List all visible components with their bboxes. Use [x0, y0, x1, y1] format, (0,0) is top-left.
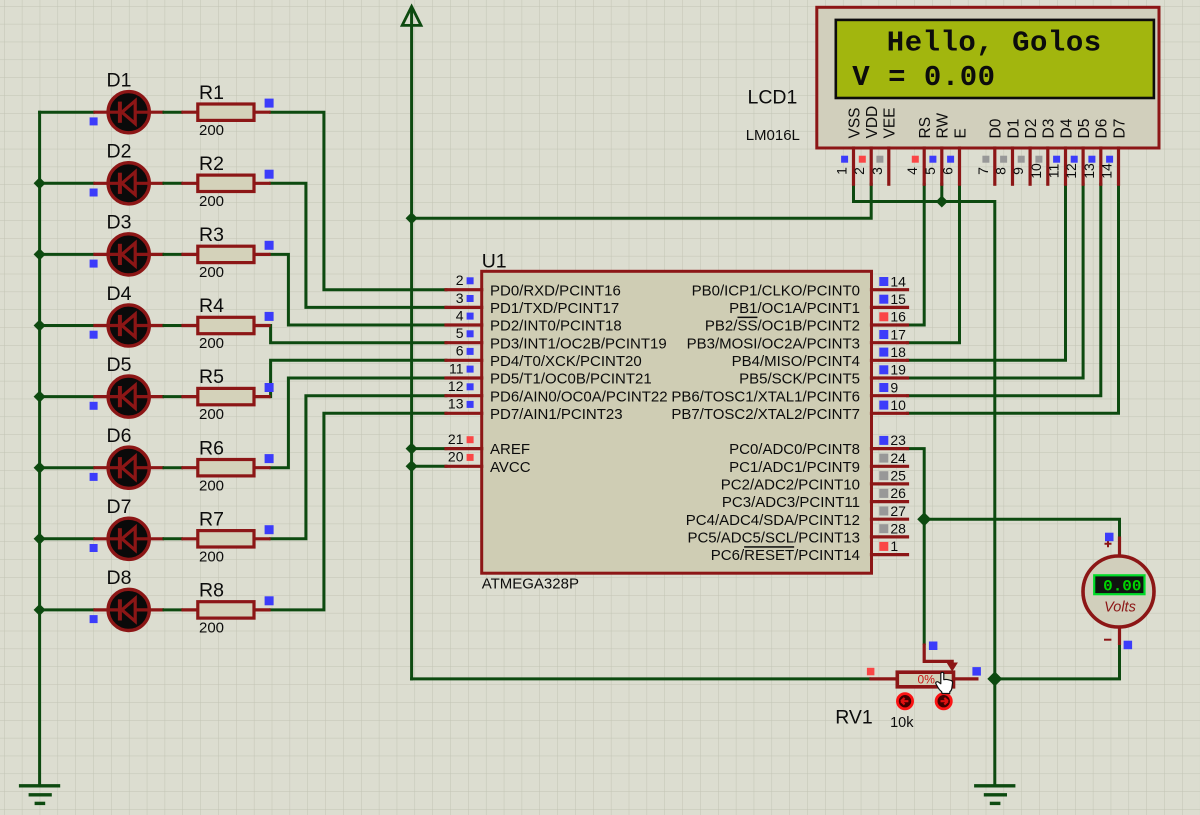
pin state indicator LCD pin 3: [876, 156, 883, 163]
pin name PB5/SCK/PCINT5: [739, 371, 860, 388]
LCD pin name D0 (rotated): [988, 118, 1005, 138]
svg-text:D5: D5: [107, 354, 132, 376]
pin number 24: [890, 450, 906, 466]
pin state indicator U1 pin 5: [467, 330, 474, 337]
wire LED D7 row: bus to LED anode: [40, 537, 94, 540]
svg-text:26: 26: [890, 485, 906, 501]
value label 10k: [890, 715, 914, 731]
label D1: [107, 70, 132, 92]
junction bus row D3: [34, 248, 46, 260]
svg-text:200: 200: [199, 406, 224, 423]
pin number 12: [448, 378, 464, 394]
voltmeter - label: [1104, 639, 1111, 641]
svg-text:R2: R2: [199, 153, 224, 175]
U1 pin 28 (PC5/ADC5/SCL/PCINT13) stub: [872, 535, 908, 538]
svg-text:19: 19: [890, 362, 906, 378]
label R2: [199, 153, 224, 175]
pin name PB7/TOSC2/XTAL2/PCINT7: [671, 406, 860, 423]
svg-text:0%: 0%: [918, 672, 936, 686]
wire LED D8 row: bus to LED anode: [40, 608, 94, 611]
pin name PD7/AIN1/PCINT23: [490, 406, 623, 423]
LCD pin number 7 (rotated): [975, 167, 991, 175]
pin number 25: [890, 468, 906, 484]
value label 200: [199, 122, 224, 139]
pin state indicator LCD pin 5: [929, 156, 936, 163]
svg-text:AREF: AREF: [490, 441, 530, 458]
pin state indicator U1 pin 15: [879, 295, 888, 304]
pin name PD0/RXD/PCINT16: [490, 282, 621, 299]
pin state indicator LCD pin 10: [1035, 156, 1042, 163]
pin number 15: [890, 291, 906, 307]
pin state indicator R1 output: [265, 99, 274, 108]
wire LED D3 cathode to R3: [164, 253, 181, 256]
pin number 28: [890, 521, 906, 537]
wire LCD E(6) to U1 pin17: [908, 184, 960, 343]
label U1: [482, 251, 507, 273]
svg-text:10: 10: [1028, 163, 1044, 179]
LCD pin number 9 (rotated): [1010, 167, 1026, 175]
LCD pin number 6 (rotated): [940, 167, 956, 175]
pin state indicator R2 output: [265, 170, 274, 179]
pin state indicator LED D5 anode: [90, 402, 98, 410]
label ATMEGA328P: [482, 576, 579, 593]
power terminal arrow: [402, 7, 421, 26]
pin state indicator R6 output: [265, 454, 274, 463]
svg-text:12: 12: [448, 378, 464, 394]
LCD pin name E (rotated): [952, 128, 969, 138]
pin state indicator U1 pin 10: [879, 401, 888, 410]
junction bus row D2: [34, 177, 46, 189]
wire LED D5 cathode to R5: [164, 395, 181, 398]
pin state indicator LED D2 anode: [90, 189, 98, 197]
svg-text:13: 13: [1081, 163, 1097, 179]
svg-text:6: 6: [456, 343, 464, 359]
LED D5: [93, 376, 164, 417]
U1 pin 17 (PB3/MOSI/OC2A/PCINT3) stub: [872, 341, 908, 344]
voltmeter + label: [1105, 540, 1112, 547]
svg-text:PB5/SCK/PCINT5: PB5/SCK/PCINT5: [739, 371, 860, 388]
LCD pin number 12 (rotated): [1063, 163, 1079, 179]
wire LED D1 row: bus to LED anode: [40, 111, 94, 114]
resistor R4 200: [181, 317, 270, 333]
pin name AVCC: [490, 459, 531, 476]
U1 ATMEGA328P body: [482, 271, 872, 573]
pin state indicator LCD pin 12: [1071, 156, 1078, 163]
svg-text:VSS: VSS: [846, 107, 863, 138]
wire LED D1 cathode to R1: [164, 111, 181, 114]
label R3: [199, 224, 224, 246]
LCD pin name D7 (rotated): [1111, 119, 1128, 139]
pin state indicator U1 pin 27: [879, 507, 888, 516]
svg-text:PD1/TXD/PCINT17: PD1/TXD/PCINT17: [490, 300, 619, 317]
svg-text:LM016L: LM016L: [746, 127, 800, 144]
wire LED D7 cathode to R7: [164, 537, 181, 540]
pin name PC3/ADC3/PCINT11: [722, 494, 860, 511]
pin state indicator LCD pin 9: [1018, 156, 1025, 163]
svg-text:R6: R6: [199, 437, 224, 459]
pin state indicator voltmeter +: [1105, 533, 1114, 542]
U1 pin 19 (PB5/SCK/PCINT5) stub: [872, 376, 908, 379]
LCD pin name RS (rotated): [917, 117, 934, 139]
wire power rail horizontal to RV1 left pin: [412, 677, 870, 680]
wire R4 to U1 pin 5: [271, 326, 446, 343]
svg-text:D8: D8: [107, 567, 132, 589]
svg-text:R1: R1: [199, 82, 224, 104]
pin name PD3/INT1/OC2B/PCINT19: [490, 335, 667, 352]
pin name PC4/ADC4/SDA/PCINT12: [686, 512, 860, 529]
svg-text:0.00: 0.00: [1103, 578, 1141, 596]
pin state indicator LCD pin 11: [1053, 156, 1060, 163]
svg-text:D0: D0: [988, 118, 1005, 138]
svg-text:PD3/INT1/OC2B/PCINT19: PD3/INT1/OC2B/PCINT19: [490, 335, 667, 352]
svg-text:14: 14: [1099, 163, 1115, 179]
U1 pin 18 (PB4/MISO/PCINT4) stub: [872, 359, 908, 362]
svg-text:200: 200: [199, 335, 224, 352]
wire LED D6 cathode to R6: [164, 466, 181, 469]
pin number 9: [890, 379, 898, 395]
resistor R6 200: [181, 460, 270, 476]
pin state indicator R4 output: [265, 312, 274, 321]
wire VDD feed: rail to LCD pin 2: [412, 184, 872, 218]
svg-text:RV1: RV1: [835, 707, 873, 729]
svg-text:2: 2: [456, 272, 464, 288]
svg-text:PB3/MOSI/OC2A/PCINT3: PB3/MOSI/OC2A/PCINT3: [687, 335, 860, 352]
pin number 23: [890, 432, 906, 448]
LCD pin 7 (D0) stub: [993, 148, 996, 184]
label D7: [107, 496, 132, 518]
label RV1: [835, 707, 873, 729]
wire R1 to U1 pin 2: [271, 112, 446, 290]
LCD pin name D1 (rotated): [1005, 119, 1022, 139]
pin name PC0/ADC0/PCINT8: [729, 441, 860, 458]
pin state indicator U1 pin 20: [467, 454, 474, 461]
pin number 19: [890, 362, 906, 378]
pin state indicator RV1 right: [972, 667, 981, 676]
pin number 26: [890, 485, 906, 501]
label R7: [199, 508, 224, 530]
U1 pin 13 (PD7/AIN1/PCINT23) stub: [446, 412, 482, 415]
svg-text:20: 20: [448, 449, 464, 465]
pin name PD1/TXD/PCINT17: [490, 300, 619, 317]
pin number 18: [890, 344, 906, 360]
svg-text:200: 200: [199, 548, 224, 565]
svg-text:24: 24: [890, 450, 906, 466]
svg-text:Volts: Volts: [1104, 600, 1136, 616]
svg-text:21: 21: [448, 431, 464, 447]
svg-text:V = 0.00: V = 0.00: [852, 61, 995, 94]
pin name PC1/ADC1/PCINT9: [729, 459, 860, 476]
pin number 20: [448, 449, 464, 465]
pin state indicator U1 pin 2: [467, 277, 474, 284]
value label 200: [199, 335, 224, 352]
svg-text:27: 27: [890, 503, 906, 519]
label D4: [107, 283, 132, 305]
svg-text:PB6/TOSC1/XTAL1/PCINT6: PB6/TOSC1/XTAL1/PCINT6: [671, 388, 860, 405]
svg-text:10k: 10k: [890, 715, 914, 731]
svg-text:3: 3: [869, 167, 885, 175]
svg-text:PD0/RXD/PCINT16: PD0/RXD/PCINT16: [490, 282, 621, 299]
LCD pin 5 (RW) stub: [940, 148, 943, 184]
svg-text:23: 23: [890, 432, 906, 448]
pin state indicator RV1 left: [867, 668, 875, 676]
LCD pin 10 (D3) stub: [1046, 148, 1049, 184]
svg-text:1: 1: [890, 538, 898, 554]
pin state indicator U1 pin 6: [467, 348, 474, 355]
svg-text:11: 11: [1046, 164, 1062, 179]
wire R6 to U1 pin 11: [271, 378, 446, 468]
U1 pin 1 (PC6/RESET/PCINT14) stub: [872, 553, 908, 556]
U1 pin 6 (PD4/T0/XCK/PCINT20) stub: [446, 359, 482, 362]
RV1 decrease button: [897, 694, 912, 709]
svg-text:PD5/T1/OC0B/PCINT21: PD5/T1/OC0B/PCINT21: [490, 371, 652, 388]
pin state indicator RV1 wiper: [929, 642, 938, 651]
pin name PB3/MOSI/OC2A/PCINT3: [687, 335, 860, 352]
resistor R8 200: [181, 602, 270, 618]
pin state indicator LED D6 anode: [90, 473, 98, 481]
junction RV1 right / ground rail / voltmeter: [987, 671, 1002, 686]
U1 pin 20 (AVCC) stub: [446, 465, 482, 468]
svg-text:15: 15: [890, 291, 906, 307]
pin state indicator R5 output: [265, 383, 274, 392]
LCD pin number 10 (rotated): [1028, 163, 1044, 179]
pin name PC5/ADC5/SCL/PCINT13: [687, 530, 860, 547]
svg-text:D2: D2: [107, 141, 132, 163]
svg-text:5: 5: [922, 167, 938, 175]
pin name PB4/MISO/PCINT4: [732, 353, 860, 370]
junction bus row D7: [34, 533, 46, 545]
wire LCD D7(14) to U1 pin10: [908, 184, 1119, 413]
LCD text line 1: Hello, Golos: [887, 27, 1102, 60]
svg-text:16: 16: [890, 309, 906, 325]
pin number 2: [456, 272, 464, 288]
svg-text:D3: D3: [1041, 119, 1058, 139]
LCD pin number 5 (rotated): [922, 167, 938, 175]
svg-text:PC0/ADC0/PCINT8: PC0/ADC0/PCINT8: [729, 441, 860, 458]
svg-text:2: 2: [851, 167, 867, 175]
pin number 3: [456, 290, 464, 306]
wire R5 to U1 pin 6: [271, 360, 446, 396]
LCD pin name D4 (rotated): [1058, 118, 1075, 138]
pin state indicator U1 pin 1: [879, 542, 888, 551]
wire LED D5 row: bus to LED anode: [40, 395, 94, 398]
svg-text:9: 9: [890, 379, 898, 395]
pin number 11: [449, 360, 464, 376]
junction rail/AREF: [406, 443, 418, 455]
svg-text:11: 11: [449, 360, 464, 376]
svg-text:1: 1: [834, 167, 850, 175]
value label 200: [199, 548, 224, 565]
svg-text:D7: D7: [1111, 119, 1128, 139]
RV1 percent label 0%: [918, 672, 936, 686]
svg-text:D6: D6: [107, 425, 132, 447]
wire LED D4 cathode to R4: [164, 324, 181, 327]
svg-text:PD7/AIN1/PCINT23: PD7/AIN1/PCINT23: [490, 406, 623, 423]
pin name AREF: [490, 441, 530, 458]
LCD pin name VDD (rotated): [864, 106, 881, 139]
label D8: [107, 567, 132, 589]
pin name PD4/T0/XCK/PCINT20: [490, 353, 642, 370]
U1 pin 12 (PD6/AIN0/OC0A/PCINT22) stub: [446, 394, 482, 397]
LCD pin name RW (rotated): [935, 113, 952, 139]
LCD pin number 1 (rotated): [834, 167, 850, 175]
svg-text:17: 17: [890, 326, 906, 342]
pin state indicator U1 pin 13: [467, 401, 474, 408]
svg-text:ATMEGA328P: ATMEGA328P: [482, 576, 579, 593]
svg-text:PC1/ADC1/PCINT9: PC1/ADC1/PCINT9: [729, 459, 860, 476]
svg-text:AVCC: AVCC: [490, 459, 531, 476]
svg-text:PD4/T0/XCK/PCINT20: PD4/T0/XCK/PCINT20: [490, 353, 642, 370]
pin name PD6/AIN0/OC0A/PCINT22: [490, 388, 668, 405]
svg-text:200: 200: [199, 193, 224, 210]
svg-text:200: 200: [199, 477, 224, 494]
wire LED D4 row: bus to LED anode: [40, 324, 94, 327]
LCD pin 8 (D1) stub: [1011, 148, 1014, 184]
pin number 16: [890, 309, 906, 325]
pin state indicator R7 output: [265, 525, 274, 534]
svg-text:PC2/ADC2/PCINT10: PC2/ADC2/PCINT10: [721, 477, 860, 494]
pin number 6: [456, 343, 464, 359]
svg-text:5: 5: [456, 325, 464, 341]
svg-text:PB7/TOSC2/XTAL2/PCINT7: PB7/TOSC2/XTAL2/PCINT7: [671, 406, 860, 423]
pin name PB0/ICP1/CLKO/PCINT0: [692, 282, 860, 299]
pin number 17: [890, 326, 906, 342]
svg-text:VDD: VDD: [864, 106, 881, 139]
pin name PC6/RESET/PCINT14: [711, 547, 860, 564]
pin state indicator U1 pin 12: [467, 383, 474, 390]
svg-text:PD2/INT0/PCINT18: PD2/INT0/PCINT18: [490, 318, 622, 335]
value label 200: [199, 193, 224, 210]
LCD pin number 14 (rotated): [1099, 163, 1115, 179]
pin state indicator LCD pin 7: [982, 156, 989, 163]
pin state indicator U1 pin 25: [879, 471, 888, 480]
svg-text:8: 8: [993, 167, 1009, 175]
potentiometer RV1 body: [869, 672, 978, 687]
junction RW/ground wire: [936, 196, 948, 208]
value label 200: [199, 620, 224, 637]
svg-text:RS: RS: [917, 117, 934, 139]
label D5: [107, 354, 132, 376]
RV1 increase button: [936, 694, 951, 709]
wire LCD D6(13) to U1 pin9: [908, 184, 1101, 396]
U1 pin 14 (PB0/ICP1/CLKO/PCINT0) stub: [872, 288, 908, 291]
pin name PD5/T1/OC0B/PCINT21: [490, 371, 652, 388]
pin state indicator U1 pin 9: [879, 383, 888, 392]
label D2: [107, 141, 132, 163]
svg-text:3: 3: [456, 290, 464, 306]
svg-text:PC6/RESET/PCINT14: PC6/RESET/PCINT14: [711, 547, 860, 564]
wire U1 pin23 PC0/ADC0 to RV1 wiper: [908, 449, 925, 644]
pin state indicator LED D1 anode: [90, 117, 98, 125]
pin state indicator voltmeter -: [1124, 641, 1133, 650]
pin name PB1/OC1A/PCINT1: [729, 300, 860, 317]
U1 pin 11 (PD5/T1/OC0B/PCINT21) stub: [446, 376, 482, 379]
svg-text:200: 200: [199, 122, 224, 139]
wire LED D2 row: bus to LED anode: [40, 182, 94, 185]
pin state indicator U1 pin 4: [467, 313, 474, 320]
wire LCD RS(4) to U1 pin16: [908, 184, 925, 325]
LCD pin 13 (D6) stub: [1099, 148, 1102, 184]
pin state indicator U1 pin 23: [879, 436, 888, 445]
pin state indicator R8 output: [265, 596, 274, 605]
LCD pin 4 (RS) stub: [923, 148, 926, 184]
wire R3 to U1 pin 4: [271, 254, 446, 325]
wire AVCC to rail: [412, 465, 446, 468]
wire LED cathode bus: [38, 112, 41, 785]
LCD pin 14 (D7) stub: [1117, 148, 1120, 184]
wire LCD D4(11) to U1 pin18: [908, 184, 1066, 360]
wire voltmeter + to ADC wire: [924, 519, 1119, 536]
LCD text line 2: V = 0.00: [852, 61, 995, 94]
pin state indicator U1 pin 11: [467, 366, 474, 373]
U1 pin 23 (PC0/ADC0/PCINT8) stub: [872, 447, 908, 450]
U1 pin 16 (PB2/SS/OC1B/PCINT2) stub: [872, 323, 908, 326]
pin state indicator U1 pin 28: [879, 524, 888, 533]
svg-text:LCD1: LCD1: [748, 87, 798, 109]
U1 pin 4 (PD2/INT0/PCINT18) stub: [446, 323, 482, 326]
pin state indicator LCD pin 2: [859, 156, 866, 163]
wire LCD D5(12) to U1 pin19: [908, 184, 1084, 378]
svg-text:R4: R4: [199, 295, 224, 317]
svg-text:D3: D3: [107, 212, 132, 234]
value label 200: [199, 477, 224, 494]
LED D7: [93, 518, 164, 559]
resistor R1 200: [181, 104, 270, 120]
pin state indicator U1 pin 17: [879, 330, 888, 339]
pin name PB6/TOSC1/XTAL1/PCINT6: [671, 388, 860, 405]
pin number 14: [890, 273, 906, 289]
U1 pin 9 (PB6/TOSC1/XTAL1/PCINT6) stub: [872, 394, 908, 397]
junction bus row D6: [34, 462, 46, 474]
U1 pin 3 (PD1/TXD/PCINT17) stub: [446, 306, 482, 309]
resistor R3 200: [181, 246, 270, 262]
wire R2 to U1 pin 3: [271, 183, 446, 307]
resistor R5 200: [181, 388, 270, 404]
U1 pin 5 (PD3/INT1/OC2B/PCINT19) stub: [446, 341, 482, 344]
pin number 13: [448, 396, 464, 412]
svg-text:PB2/SS/OC1B/PCINT2: PB2/SS/OC1B/PCINT2: [705, 318, 860, 335]
resistor R7 200: [181, 531, 270, 547]
svg-text:PC4/ADC4/SDA/PCINT12: PC4/ADC4/SDA/PCINT12: [686, 512, 860, 529]
svg-text:R5: R5: [199, 366, 224, 388]
voltmeter label Volts: [1104, 600, 1136, 616]
svg-text:D6: D6: [1094, 119, 1111, 139]
wire LCD RW(5) to ground wire: [940, 184, 943, 201]
svg-text:D5: D5: [1076, 119, 1093, 139]
LCD pin name D5 (rotated): [1076, 119, 1093, 139]
wire LED D6 row: bus to LED anode: [40, 466, 94, 469]
LCD pin 2 (VDD) stub: [870, 148, 873, 184]
svg-text:PB0/ICP1/CLKO/PCINT0: PB0/ICP1/CLKO/PCINT0: [692, 282, 860, 299]
wire LED D3 row: bus to LED anode: [40, 253, 94, 256]
LCD pin number 13 (rotated): [1081, 163, 1097, 179]
junction bus row D5: [34, 391, 46, 403]
pin state indicator LCD pin 6: [947, 156, 954, 163]
LED D6: [93, 447, 164, 488]
svg-text:D1: D1: [1005, 119, 1022, 139]
LCD pin name D3 (rotated): [1041, 119, 1058, 139]
LCD pin name VSS (rotated): [846, 107, 863, 138]
pin state indicator U1 pin 21: [467, 436, 474, 443]
pin state indicator LCD pin 13: [1088, 156, 1095, 163]
LED D1: [93, 92, 164, 133]
resistor R2 200: [181, 175, 270, 191]
svg-text:R7: R7: [199, 508, 224, 530]
svg-text:D2: D2: [1023, 119, 1040, 139]
wire LED D8 cathode to R8: [164, 608, 181, 611]
LCD pin number 4 (rotated): [904, 167, 920, 175]
RV1 wiper arm + arrow: [924, 644, 958, 672]
U1 pin 15 (PB1/OC1A/PCINT1) stub: [872, 306, 908, 309]
